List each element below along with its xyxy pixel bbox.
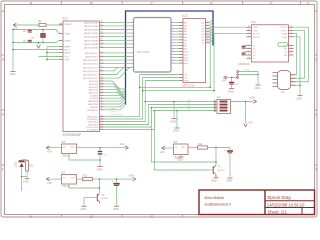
svg-text:T2IN: T2IN (253, 30, 258, 32)
svg-text:15: 15 (207, 33, 209, 35)
frame row ticks left (1, 54, 5, 56)
wire AREF (47, 46, 63, 48)
wire IC5 gnd pin down (69, 184, 100, 188)
svg-text:14: 14 (207, 30, 209, 32)
svg-text:R1OUT: R1OUT (253, 34, 261, 36)
node junction AREF-AGND (46, 52, 48, 54)
wire C5 stubs (244, 45, 247, 46)
svg-text:C9: C9 (104, 155, 108, 157)
svg-text:VPP: VPP (184, 81, 189, 83)
svg-text:D7: D7 (202, 43, 206, 45)
svg-text:+5V: +5V (248, 121, 253, 125)
svg-text:AD1/DQ1: AD1/DQ1 (89, 83, 99, 86)
wire portD row2 RXD to IC2 R1OUT (104, 91, 215, 119)
svg-text:elo@fastwebnet.it: elo@fastwebnet.it (205, 202, 231, 206)
wire GND pin (47, 59, 63, 61)
wire T1 gate extension (154, 111, 209, 171)
wire +9V to regulator IC6 (162, 147, 174, 149)
wire xtal1 row (13, 41, 63, 43)
svg-text:GND: GND (10, 72, 16, 76)
svg-text:R13: R13 (198, 144, 203, 146)
ground symbol below DB9 (297, 95, 302, 97)
wire AVCC long (13, 49, 63, 51)
svg-text:6: 6 (291, 47, 292, 49)
svg-text:16: 16 (290, 54, 292, 56)
svg-text:XTAL2: XTAL2 (65, 33, 72, 36)
wire R13 to cap (208, 147, 231, 149)
transistor T1 (212, 166, 214, 174)
svg-text:(A14/DQ14)PC6: (A14/DQ14)PC6 (83, 74, 99, 77)
resistor R13 (198, 146, 208, 149)
svg-text:13: 13 (290, 32, 292, 34)
svg-text:GND: GND (173, 129, 179, 133)
svg-text:IN: IN (63, 147, 66, 149)
wire collector rail extension (151, 108, 216, 163)
svg-text:+: + (112, 179, 114, 183)
wire collector drop (215, 148, 217, 165)
wire IC3 OE to vertical (140, 75, 179, 88)
socket left pin stubs (130, 21, 134, 23)
wire cap C9 stub top (99, 148, 101, 151)
transistor T2 (96, 194, 98, 202)
supply arrow VCC on reset net (13, 23, 16, 25)
ground symbol C8 (229, 88, 234, 90)
svg-text:(A9/DQ9)PC1: (A9/DQ9)PC1 (85, 56, 99, 59)
svg-text:12: 12 (248, 32, 250, 34)
svg-text:AVCC: AVCC (65, 49, 71, 52)
svg-text:18: 18 (207, 41, 209, 43)
svg-text:T1: T1 (218, 166, 222, 169)
wire cap C8 stub (231, 78, 233, 83)
wire IC4 out (77, 147, 127, 149)
svg-text:A5: A5 (184, 36, 187, 39)
wire fan IC1 portC lower diagonals to socket (104, 67, 130, 71)
wire fan IC1 data pins upper into navy bus (104, 81, 126, 89)
svg-text:OE: OE (184, 75, 188, 77)
svg-text:P10M: P10M (110, 109, 116, 111)
svg-text:+9V: +9V (160, 150, 165, 154)
svg-text:TD: TD (284, 52, 287, 54)
svg-text:GND: GND (170, 119, 176, 123)
node junction OE (139, 87, 141, 89)
wire capacitor C2 stub (29, 41, 31, 44)
pin header SV1 pads (237, 71, 239, 73)
resistor R1 (39, 24, 46, 27)
svg-text:C: C (151, 0, 154, 5)
voltage regulator IC4 box (62, 144, 77, 154)
svg-text:IC6: IC6 (173, 140, 178, 144)
svg-text:(T1)PB1: (T1)PB1 (90, 98, 99, 100)
crystal Q1 (41, 34, 46, 38)
svg-text:(AD6/DQ6)PA6: (AD6/DQ6)PA6 (84, 43, 99, 46)
wire IC6 out to resistor R13 (188, 147, 198, 149)
led LED1 cathode bar (19, 160, 25, 162)
op IC1 microcontroller box (63, 21, 100, 132)
svg-text:A2: A2 (184, 27, 187, 30)
svg-text:9: 9 (248, 35, 249, 37)
svg-text:+12V: +12V (249, 96, 256, 100)
wire cap C10 to ground (229, 153, 231, 178)
svg-text:(A15/DQ15)PC7: (A15/DQ15)PC7 (83, 77, 99, 80)
svg-text:GND: GND (228, 89, 234, 93)
svg-text:GND: GND (65, 60, 70, 62)
wire led top tie (22, 159, 28, 161)
wire T1 base (209, 169, 213, 171)
svg-text:S1: S1 (217, 95, 221, 99)
wire vertical to T2 collector (99, 179, 101, 193)
wire IC4 gnd pin down (69, 154, 100, 161)
wire IC5 out to resistor (77, 178, 83, 180)
svg-text:2: 2 (248, 57, 249, 59)
title block row line under date (265, 207, 315, 209)
svg-text:B: B (90, 0, 93, 5)
svg-text:IC1: IC1 (63, 17, 68, 21)
svg-text:IC4: IC4 (61, 140, 66, 144)
connector X1 DB9 body (278, 71, 291, 90)
node junction crystal top (42, 29, 44, 31)
svg-text:+9V: +9V (47, 181, 52, 185)
capacitor C8 polarized (229, 82, 234, 84)
svg-text:1: 1 (315, 167, 318, 172)
svg-text:R1IN: R1IN (282, 34, 287, 36)
svg-text:12: 12 (207, 24, 209, 26)
svg-text:LED1: LED1 (14, 161, 17, 168)
wires socket to IC3 (175, 22, 179, 24)
svg-text:3: 3 (248, 47, 249, 49)
node junction collector rail (151, 107, 153, 109)
svg-text:E: E (270, 0, 273, 5)
node junction GND row (46, 59, 48, 61)
supply arrow +5V down (244, 124, 246, 127)
svg-text:D6: D6 (202, 40, 206, 42)
title block row line under title (265, 200, 315, 202)
wire T2 base drop to gnd (83, 198, 85, 206)
node junction crystal bottom (42, 42, 44, 44)
node junction T2 branch (99, 178, 101, 180)
svg-text:A: A (30, 0, 33, 5)
svg-text:A14: A14 (184, 62, 189, 65)
capacitor C6 at IC2 (242, 52, 246, 54)
svg-text:M27C512: M27C512 (183, 84, 196, 88)
svg-text:A1: A1 (184, 24, 187, 27)
svg-text:7: 7 (291, 29, 292, 31)
wire vertical to +5V supply arrow (245, 102, 247, 124)
node junction gnd row1 (99, 159, 101, 161)
wire capacitor C1 stub (29, 29, 31, 32)
ground symbol C10 (227, 177, 232, 179)
svg-text:17: 17 (207, 38, 209, 40)
node junction rail xtal2 (12, 29, 14, 31)
svg-text:IC3: IC3 (183, 14, 188, 18)
svg-text:Eprom Drag: Eprom Drag (268, 195, 292, 200)
capacitor C5 at IC2 (242, 45, 246, 47)
svg-text:C2-: C2- (253, 55, 257, 57)
svg-text:D3: D3 (202, 31, 206, 33)
wire switch row drop to ground (176, 111, 178, 128)
svg-text:D0: D0 (202, 23, 206, 25)
resistor R11 vertical (26, 161, 29, 171)
svg-text:(AD4/DQ4)PA4: (AD4/DQ4)PA4 (84, 36, 99, 39)
svg-text:C: C (151, 214, 154, 219)
resistor R12 (83, 178, 93, 181)
title block sheet cell divider (301, 208, 303, 215)
ground symbol below switch (174, 127, 179, 129)
svg-text:AD0/DQ0: AD0/DQ0 (89, 80, 99, 83)
svg-text:AD3/DQ3: AD3/DQ3 (89, 89, 99, 92)
supply arrow +5V out row1 (125, 146, 128, 148)
svg-text:CLIP 3.5: CLIP 3.5 (110, 112, 119, 114)
node junction DB9 shield (299, 84, 301, 86)
wire AGND (47, 52, 63, 54)
svg-text:AGND: AGND (65, 52, 72, 55)
wire AGND drop from xtal rail (38, 43, 40, 45)
svg-text:C1-: C1- (253, 49, 257, 51)
svg-text:AT90S8515P: AT90S8515P (63, 133, 82, 137)
ground symbol SV1 (255, 84, 260, 86)
op IC2 max232 box (251, 25, 288, 62)
svg-text:5: 5 (248, 54, 249, 56)
svg-text:GND: GND (97, 167, 103, 171)
svg-text:VCC: VCC (65, 57, 70, 59)
svg-text:16: 16 (207, 36, 209, 38)
svg-text:A11: A11 (184, 53, 188, 56)
ground symbol mid drop (171, 118, 176, 120)
wire IC2 R1OUT descender (214, 34, 246, 91)
capacitor C1 (28, 29, 32, 31)
svg-text:OUT: OUT (71, 147, 76, 149)
frame column ticks bottom (61, 215, 63, 218)
svg-text:13: 13 (207, 27, 209, 29)
svg-text:A8: A8 (184, 45, 187, 48)
wire IC3 VPP to vertical (145, 81, 179, 102)
wire cap C9 to ground (99, 154, 101, 166)
svg-text:R2IN: R2IN (282, 37, 287, 39)
wire +9V to regulator IC5 (46, 178, 62, 180)
node junction gnd row2 (99, 187, 101, 189)
svg-text:GND: GND (296, 96, 302, 100)
svg-text:A4: A4 (184, 33, 187, 36)
svg-text:D5: D5 (202, 37, 206, 39)
svg-text:(AD3/DQ3)PA3: (AD3/DQ3)PA3 (84, 32, 99, 35)
wire bundle IC1 portC upper to socket (104, 52, 130, 54)
wire cap C10 stub top (229, 148, 231, 152)
svg-text:A0: A0 (184, 22, 187, 25)
supply arrow +9V input row1 (46, 146, 49, 148)
wire T1OUT to DB9 (291, 27, 309, 82)
bus entries IC3 data to navy bus (210, 19, 214, 22)
node junction TXD (209, 87, 211, 89)
svg-text:2: 2 (315, 112, 318, 117)
node junction switch drop (176, 110, 178, 112)
ground symbol C9 (97, 166, 102, 168)
svg-text:X1: X1 (281, 90, 285, 94)
node junction collector rail (215, 161, 217, 163)
svg-text:C1+: C1+ (253, 45, 258, 47)
svg-text:4: 4 (248, 50, 249, 52)
svg-text:R2OUT: R2OUT (253, 37, 261, 39)
svg-text:(A11/DQ11)PC3: (A11/DQ11)PC3 (83, 63, 99, 66)
svg-text:8: 8 (291, 35, 292, 37)
wire crystal top (42, 30, 44, 34)
svg-text:RESET: RESET (65, 24, 73, 26)
svg-text:T2OUT: T2OUT (280, 30, 288, 32)
svg-text:D: D (210, 0, 213, 5)
wire down to gnd near DB9 (257, 72, 259, 85)
led LED1 triangle (19, 163, 23, 167)
svg-text:Mirko Mattioli: Mirko Mattioli (205, 196, 225, 200)
ground symbol led circuit (25, 178, 30, 180)
supply arrow +5V at DB9 (224, 76, 227, 78)
node junction AGND drop (38, 42, 40, 44)
svg-text:VS-: VS- (284, 49, 288, 51)
IC1 right pin stubs (100, 21, 104, 23)
wire TXD (239, 74, 259, 76)
node junction VPP (144, 101, 146, 103)
capacitor C2 (28, 39, 32, 41)
svg-text:GND: GND (226, 179, 232, 183)
svg-text:V+: V+ (253, 58, 256, 60)
svg-text:(AD5/DQ5)PA5: (AD5/DQ5)PA5 (84, 39, 99, 42)
svg-text:IN: IN (175, 147, 178, 149)
supply arrow +12V right (253, 100, 256, 102)
wire vertical ground rail (12, 30, 14, 72)
IC3 left pin stubs (179, 22, 183, 24)
wire AREF drop (46, 47, 48, 60)
svg-text:R11: R11 (30, 166, 35, 168)
svg-text:+: + (224, 148, 226, 152)
node junction TXD gnd (257, 74, 259, 76)
node junction cap row2 (116, 178, 118, 180)
wire reset net left segment (13, 24, 39, 26)
IC1 left pin stubs (59, 23, 63, 25)
node junction gate rail (154, 110, 156, 112)
svg-text:GND: GND (23, 180, 29, 184)
svg-text:(AIN1)PB3: (AIN1)PB3 (88, 103, 99, 106)
svg-text:(AD2/DQ2)PA2: (AD2/DQ2)PA2 (84, 29, 99, 32)
eprom socket U2 grey box (134, 18, 172, 73)
wire IC2 T1IN descender (210, 27, 246, 87)
wire led cathode down (21, 167, 23, 191)
frame column ticks top (61, 1, 63, 5)
wire switch common to +12V (231, 101, 254, 103)
svg-text:D2: D2 (202, 28, 206, 30)
svg-text:XTAL1: XTAL1 (65, 40, 72, 43)
svg-text:15: 15 (290, 50, 292, 52)
IC3 lower left pin stubs (179, 74, 183, 76)
svg-text:2: 2 (291, 44, 292, 46)
pin pad DB9 supply pin (237, 77, 239, 79)
voltage regulator IC6 box (174, 144, 189, 155)
ground symbol T2 (81, 205, 86, 207)
svg-text:A3: A3 (184, 30, 187, 33)
socket right pin stubs (171, 22, 175, 24)
svg-text:D4: D4 (202, 34, 206, 36)
svg-text:C2+: C2+ (253, 52, 258, 54)
svg-text:(MOSI)PB5: (MOSI)PB5 (87, 110, 98, 112)
svg-text:4: 4 (315, 9, 318, 14)
S1 left pin pads (214, 101, 216, 103)
svg-text:BC547: BC547 (102, 198, 109, 200)
frame row ticks right (315, 54, 318, 56)
ground symbol IC6 (178, 156, 183, 158)
voltage regulator IC5 box (62, 175, 77, 185)
node junction CE (142, 90, 144, 92)
svg-text:AREF: AREF (65, 46, 71, 49)
svg-text:14/02/2008 16:56:10: 14/02/2008 16:56:10 (267, 202, 305, 207)
svg-text:(A13/DQ13)PC5: (A13/DQ13)PC5 (83, 70, 99, 73)
wire led tie to resistor gnd (22, 176, 28, 178)
wire portD row6 up to switch row4 (104, 111, 218, 130)
svg-text:OUT: OUT (71, 178, 76, 180)
wire portD row1 TXD to IC2 T1IN (104, 87, 211, 116)
X1 right pin stubs (291, 74, 296, 76)
svg-text:(OC1A)PD5: (OC1A)PD5 (87, 129, 99, 132)
svg-text:78L05: 78L05 (62, 154, 70, 158)
svg-text:1: 1 (248, 44, 249, 46)
title block outline (199, 190, 315, 215)
wire RXD (239, 71, 259, 73)
wire reset net to IC1 (46, 24, 63, 26)
node junction rail AVCC (12, 49, 14, 51)
svg-text:11: 11 (248, 26, 250, 28)
svg-text:11: 11 (207, 21, 209, 23)
svg-text:GND: GND (254, 86, 260, 90)
svg-text:Q1: Q1 (31, 38, 35, 40)
switch S1 box (217, 100, 231, 114)
svg-text:+9V: +9V (47, 150, 52, 154)
svg-text:B: B (90, 214, 93, 219)
wire gnd drop from switch row1 (173, 102, 175, 119)
X1 left pin stubs (273, 72, 278, 74)
svg-text:(AD1/DQ1)PA1: (AD1/DQ1)PA1 (84, 25, 99, 28)
svg-text:AD4/DQ4: AD4/DQ4 (89, 92, 99, 95)
node junction +12V vertical (245, 101, 247, 103)
svg-text:(AIN0)PB2: (AIN0)PB2 (88, 100, 99, 103)
svg-text:C1: C1 (23, 31, 27, 33)
svg-text:(A10/DQ10)PC2: (A10/DQ10)PC2 (83, 59, 99, 62)
wire VCC pin (39, 56, 64, 58)
svg-text:RD: RD (284, 55, 288, 57)
wire IC3 CE to vertical (143, 78, 179, 91)
svg-text:(INT0)PD2: (INT0)PD2 (88, 122, 99, 124)
wire portD row5 up to switch row3 (104, 108, 218, 128)
svg-text:M27C256: M27C256 (137, 50, 150, 54)
svg-text:D1: D1 (202, 25, 206, 27)
wire T2 base (84, 197, 97, 199)
svg-text:BC547: BC547 (218, 170, 225, 172)
svg-text:10: 10 (248, 29, 250, 31)
IC2 right pin stubs (289, 26, 294, 28)
svg-text:C8: C8 (235, 84, 239, 86)
IC2 left pin stubs (246, 26, 251, 28)
svg-text:(SS)PB4: (SS)PB4 (90, 107, 99, 109)
ground symbol C11 (114, 205, 119, 207)
svg-text:A: A (30, 214, 33, 219)
svg-text:MAX232: MAX232 (239, 62, 250, 66)
wire +9V to regulator IC4 (46, 147, 62, 149)
svg-text:3: 3 (315, 57, 318, 62)
wire C6 stubs (244, 52, 247, 53)
supply arrow +15V out row2 (133, 177, 136, 179)
wire portD row3 up to switch row1 (104, 102, 218, 122)
svg-text:A6: A6 (184, 39, 187, 42)
svg-text:A7: A7 (184, 42, 187, 45)
ground symbol T1 emitter (213, 177, 218, 179)
svg-text:GND: GND (80, 207, 86, 211)
wire DB9 shield row (291, 84, 301, 86)
svg-text:R12: R12 (83, 175, 88, 177)
ground symbol below rail (10, 71, 15, 73)
